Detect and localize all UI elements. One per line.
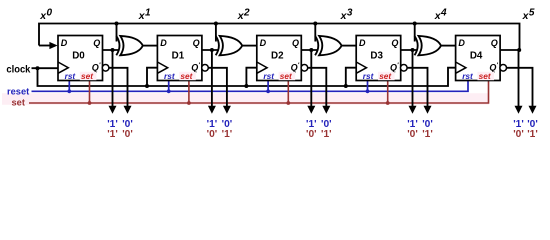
xor gate X1	[116, 36, 143, 55]
svg-text:Q: Q	[491, 38, 498, 48]
D flip-flop D1	[157, 36, 208, 82]
wire set rail	[29, 81, 489, 104]
wire clock stub	[32, 67, 59, 69]
junction reset tap D3	[366, 89, 370, 93]
wire set tap D1	[188, 81, 190, 104]
xor gate X2	[216, 36, 243, 55]
wire set tap D2	[287, 81, 289, 104]
junction feedback tap x1	[115, 22, 119, 26]
svg-text:set: set	[12, 98, 25, 108]
wire xor X3 output to D3	[342, 45, 357, 47]
node D0 input arrowhead	[39, 45, 51, 47]
xor gate X3	[315, 36, 342, 55]
wire reset tap D3	[367, 81, 369, 92]
wire clock riser D2	[246, 68, 256, 86]
svg-text:x0: x0	[39, 8, 52, 23]
svg-text:D: D	[160, 38, 167, 48]
svg-text:clock: clock	[6, 65, 30, 76]
node Q1' arrow	[223, 106, 231, 114]
junction clock rail D1	[145, 84, 149, 88]
wire Q2 output to xor X3	[301, 49, 318, 51]
wire xor X1 output to D1	[143, 45, 158, 47]
wire clock riser D3	[346, 68, 356, 86]
svg-text:rst: rst	[65, 71, 77, 81]
junction set tap D3	[386, 101, 390, 105]
svg-text:D: D	[61, 38, 68, 48]
svg-text:'0': '0'	[407, 129, 418, 140]
svg-text:'1': '1'	[222, 129, 233, 140]
junction Q2	[309, 48, 313, 52]
svg-text:rst: rst	[363, 71, 375, 81]
junction Q0	[111, 48, 115, 52]
svg-text:D3: D3	[370, 51, 383, 62]
junction set tap D0	[88, 101, 92, 105]
junction reset tap D1	[167, 89, 171, 93]
wire xor X2 output to D2	[242, 45, 257, 47]
svg-text:D: D	[359, 38, 366, 48]
junction clock rail D2	[244, 84, 248, 88]
wire reset tap D1	[168, 81, 170, 92]
wire Q0 output to xor X1	[103, 49, 120, 51]
junction set tap D1	[187, 101, 191, 105]
wire set tap D3	[387, 81, 389, 104]
node Q3' arrow	[424, 106, 432, 114]
node Q2 arrow	[307, 106, 315, 114]
svg-text:x5: x5	[522, 8, 535, 23]
svg-text:set: set	[180, 71, 193, 81]
svg-text:set: set	[479, 71, 492, 81]
svg-text:rst: rst	[462, 71, 474, 81]
junction Q4 feedback	[517, 48, 521, 52]
junction Q1	[210, 48, 214, 52]
svg-text:'1': '1'	[527, 129, 538, 140]
node Q4 arrow	[515, 106, 523, 114]
svg-text:'1': '1'	[422, 129, 433, 140]
node Q0' arrow	[124, 106, 132, 114]
svg-text:D0: D0	[72, 51, 85, 62]
svg-text:x2: x2	[237, 8, 250, 23]
svg-text:Q: Q	[93, 38, 100, 48]
svg-text:'0': '0'	[207, 129, 218, 140]
wire Q1' from bubble	[208, 68, 227, 107]
node Q4' arrow	[529, 106, 537, 114]
wire Q0 value drop	[112, 50, 114, 107]
wire x3 tap from feedback	[314, 24, 316, 42]
junction Q3	[411, 48, 415, 52]
junction feedback tap x2	[214, 22, 218, 26]
wire Q3' from bubble	[407, 68, 427, 107]
wire x4 tap from feedback	[414, 24, 416, 42]
svg-text:set: set	[379, 71, 392, 81]
svg-text:rst: rst	[164, 71, 176, 81]
wire x2 tap from feedback	[215, 24, 217, 42]
wire Q1 output to xor X2	[202, 49, 219, 51]
wire Q4 value drop	[518, 50, 520, 107]
wire Q4' from bubble	[507, 68, 533, 107]
svg-text:Q: Q	[292, 38, 299, 48]
svg-text:Q: Q	[391, 38, 398, 48]
svg-text:'0': '0'	[513, 129, 524, 140]
wire clock riser D1	[147, 68, 157, 86]
D flip-flop D2	[257, 36, 308, 82]
svg-text:set: set	[81, 71, 94, 81]
wire Q2 value drop	[310, 50, 312, 107]
wire x1 tap from feedback	[116, 24, 118, 42]
pink highlight band for set net	[2, 93, 489, 105]
junction reset tap D2	[266, 89, 270, 93]
svg-text:D1: D1	[172, 51, 185, 62]
svg-text:Q: Q	[193, 38, 200, 48]
wire Q4 output to feedback riser	[500, 49, 519, 51]
xor gate X4	[415, 36, 442, 55]
wire Q2' from bubble	[308, 68, 327, 107]
junction clock rail D3	[344, 84, 348, 88]
wire top feedback line x5 to x0	[39, 24, 520, 51]
svg-text:x3: x3	[340, 8, 353, 23]
wire Q0' from bubble	[109, 68, 128, 107]
wire Q1 value drop	[211, 50, 213, 107]
svg-text:'0': '0'	[122, 129, 133, 140]
svg-text:D: D	[260, 38, 267, 48]
wire reset tap D2	[267, 81, 269, 92]
D flip-flop D0	[58, 36, 109, 82]
svg-text:reset: reset	[7, 87, 29, 97]
wire reset rail	[32, 81, 469, 92]
junction feedback tap x3	[313, 22, 317, 26]
D flip-flop D3	[356, 36, 407, 82]
svg-text:D2: D2	[271, 51, 284, 62]
junction reset tap D0	[67, 89, 71, 93]
svg-text:rst: rst	[263, 71, 275, 81]
node Q0 arrow	[109, 106, 117, 114]
svg-text:'1': '1'	[107, 129, 118, 140]
wire set tap D0	[89, 81, 91, 104]
svg-text:x1: x1	[138, 8, 151, 23]
node Q1 arrow	[208, 106, 216, 114]
wire Q3 value drop	[412, 50, 414, 107]
svg-text:'1': '1'	[321, 129, 332, 140]
node Q3 arrow	[409, 106, 417, 114]
wire Q3 output to xor X4	[401, 49, 418, 51]
junction clock tee	[36, 66, 40, 70]
junction feedback tap x4	[413, 22, 417, 26]
svg-text:'0': '0'	[306, 129, 317, 140]
wire clock rail	[38, 68, 456, 86]
svg-text:set: set	[280, 71, 293, 81]
svg-text:D4: D4	[470, 51, 483, 62]
svg-text:x4: x4	[434, 8, 447, 23]
wire xor X4 output to D4	[441, 45, 456, 47]
svg-text:D: D	[458, 38, 465, 48]
D flip-flop D4	[456, 36, 507, 82]
junction set tap D2	[286, 101, 290, 105]
wire reset tap D0	[68, 81, 70, 92]
node Q2' arrow	[322, 106, 330, 114]
